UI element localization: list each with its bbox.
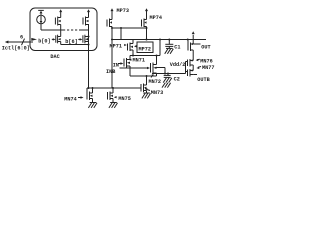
- svg-text:C1: C1: [174, 45, 180, 51]
- svg-text:MN71: MN71: [133, 58, 145, 64]
- svg-text:b[0]: b[0]: [38, 39, 50, 45]
- transistor b6 upper mirror PMOS: [83, 9, 90, 25]
- transistor MN75: [108, 88, 114, 103]
- wire Vdd/2 bias rail: [152, 62, 188, 74]
- wire bias rail in DAC: [41, 29, 63, 31]
- capacitor C1: [165, 40, 174, 54]
- svg-text:MN73: MN73: [151, 90, 163, 96]
- wire gate branch to ground: [157, 68, 166, 74]
- wire DAC output drop: [88, 24, 90, 88]
- svg-text:INB: INB: [106, 69, 115, 75]
- svg-text:MP72: MP72: [139, 46, 151, 52]
- ground MN73: [142, 93, 151, 98]
- transistor b0 switch PMOS: [56, 30, 61, 45]
- arrow b6 gate: [78, 38, 82, 40]
- transistor MP73: [107, 8, 114, 28]
- svg-text:MN77: MN77: [202, 65, 214, 71]
- svg-text:OUT: OUT: [201, 45, 210, 51]
- transistor b0 upper mirror PMOS: [55, 9, 62, 30]
- svg-text:Ictl[6:0]: Ictl[6:0]: [2, 45, 30, 51]
- svg-text:DAC: DAC: [50, 54, 59, 60]
- current source I0: [37, 10, 46, 30]
- wire mirror gate rail: [87, 87, 141, 89]
- svg-text:b[6]: b[6]: [65, 39, 77, 45]
- ground MN75: [109, 103, 118, 108]
- wire DAC summing: [61, 44, 89, 46]
- arrow IN: [119, 62, 124, 65]
- wire bias drop to MN75: [111, 28, 113, 88]
- arrow b0 gate: [52, 38, 56, 40]
- DAC box: [30, 8, 97, 51]
- wire dashed repetition: [63, 29, 80, 31]
- wire second stage node: [130, 55, 160, 57]
- transistor MN77: [188, 69, 198, 77]
- wire branch drop: [120, 28, 122, 40]
- transistor b6 switch PMOS: [83, 35, 89, 44]
- transistor MN74: [87, 88, 93, 103]
- svg-text:MP74: MP74: [150, 15, 162, 21]
- svg-text:MN75: MN75: [118, 96, 130, 102]
- wire output rail: [112, 39, 206, 41]
- svg-text:MN76: MN76: [200, 58, 212, 64]
- svg-text:Vdd/2: Vdd/2: [170, 62, 186, 68]
- transistor MP74: [142, 8, 149, 39]
- bus Ictl[6:0]: [5, 38, 37, 45]
- wire tail node: [130, 75, 157, 77]
- transistor MP71: [128, 40, 134, 56]
- transistor MN73: [141, 76, 147, 93]
- label box MP72: [134, 42, 153, 53]
- svg-text:6: 6: [20, 34, 23, 40]
- svg-text:MP71: MP71: [110, 43, 122, 49]
- transistor MN72: [151, 56, 157, 77]
- transistor MN71: [124, 56, 130, 77]
- node dots: [88, 36, 90, 38]
- wire: [80, 29, 89, 31]
- transistor MN76: [188, 59, 194, 71]
- wire mirror node: [112, 27, 147, 29]
- wire INB: [120, 67, 151, 70]
- svg-text:MP73: MP73: [117, 8, 129, 14]
- svg-text:IN: IN: [113, 63, 119, 69]
- svg-text:MN72: MN72: [149, 79, 161, 85]
- svg-text:OUTB: OUTB: [197, 77, 209, 83]
- transistor MNout upper follower: [188, 31, 201, 60]
- capacitor C2: [162, 74, 172, 88]
- ground MN74: [88, 103, 97, 108]
- svg-text:C2: C2: [174, 77, 180, 83]
- svg-text:MN74: MN74: [64, 97, 76, 103]
